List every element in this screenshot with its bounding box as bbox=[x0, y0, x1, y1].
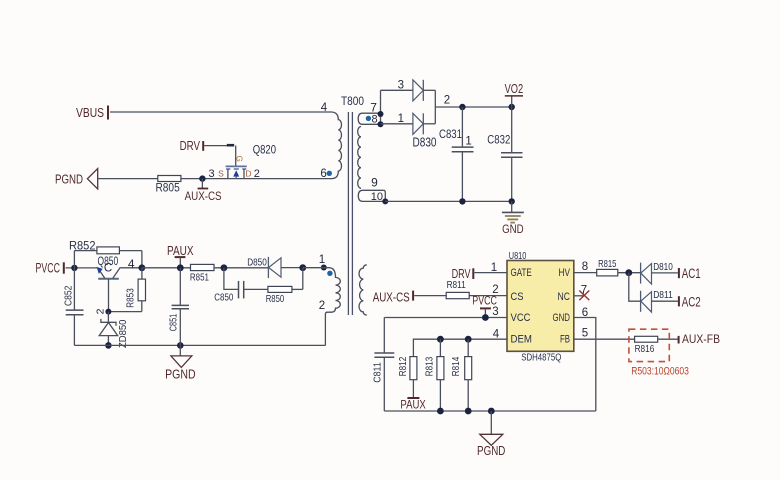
diode D830 top half bbox=[413, 80, 435, 101]
pin 2 label bbox=[319, 300, 325, 312]
svg-text:AC1: AC1 bbox=[682, 266, 701, 281]
resistor R853 bbox=[108, 268, 145, 312]
wire PGND rail bottom bbox=[384, 410, 596, 412]
svg-text:8: 8 bbox=[582, 261, 588, 273]
op-amp U810 body bbox=[507, 251, 574, 364]
node AUX-CS 2 bbox=[373, 289, 413, 304]
svg-text:AC2: AC2 bbox=[682, 295, 701, 310]
svg-text:4: 4 bbox=[493, 328, 500, 340]
label D830 bbox=[413, 134, 437, 149]
junction AUX-CS node bbox=[199, 175, 205, 181]
phase dot pin 1 bbox=[327, 271, 332, 276]
wire VCC bbox=[384, 317, 507, 319]
node DRV bbox=[180, 139, 204, 153]
junction pin 10 bbox=[382, 198, 388, 204]
wire D850 to T800 pin 1 bbox=[303, 267, 330, 269]
wire AUX-CS to R811 bbox=[414, 295, 446, 297]
junction PVCC bbox=[71, 265, 77, 271]
svg-text:R853: R853 bbox=[125, 288, 137, 308]
pin 1 label D830 bbox=[398, 113, 404, 125]
aux sense winding T800 bbox=[359, 265, 367, 315]
junction GND bbox=[509, 198, 515, 204]
node AUX-FB bbox=[679, 332, 720, 346]
wire PGND rail left bbox=[74, 344, 325, 346]
node PVCC bbox=[36, 260, 64, 275]
junction pin 1 bbox=[321, 265, 327, 271]
ground PGND left bbox=[165, 345, 196, 381]
junction zener top bbox=[105, 309, 111, 315]
svg-text:8: 8 bbox=[372, 114, 378, 126]
svg-text:AUX-CS: AUX-CS bbox=[373, 289, 410, 304]
svg-text:4: 4 bbox=[128, 257, 135, 271]
pin 1 label U810 bbox=[491, 262, 497, 274]
svg-text:R816: R816 bbox=[635, 343, 655, 355]
wire PGND to Q820 source bbox=[98, 178, 332, 180]
pin 6 label U810 bbox=[582, 307, 588, 319]
svg-text:PGND: PGND bbox=[55, 171, 83, 186]
node PAUX 2 bbox=[400, 380, 425, 412]
junction R813 bottom bbox=[437, 408, 444, 415]
capacitor C831 bbox=[439, 107, 474, 201]
svg-text:Q820: Q820 bbox=[253, 142, 277, 156]
svg-text:3: 3 bbox=[398, 79, 404, 91]
pin 2 of Q820 bbox=[245, 168, 260, 180]
junction pin 7 bbox=[378, 111, 384, 117]
pin 8 label bbox=[372, 114, 378, 126]
svg-text:C850: C850 bbox=[214, 291, 233, 303]
node AC2 bbox=[679, 295, 701, 310]
svg-text:CS: CS bbox=[511, 291, 524, 303]
svg-text:R812: R812 bbox=[397, 357, 409, 377]
svg-text:6: 6 bbox=[582, 307, 588, 319]
pin 4 label bbox=[321, 102, 328, 114]
wire DEM bbox=[413, 339, 507, 356]
pin 4 label Q850 bbox=[128, 257, 135, 271]
svg-text:VCC: VCC bbox=[511, 312, 531, 324]
junction D850 anode bbox=[299, 264, 306, 271]
svg-text:R811: R811 bbox=[447, 279, 466, 291]
resistor R851 bbox=[190, 264, 214, 283]
svg-text:5: 5 bbox=[582, 328, 588, 340]
svg-text:1: 1 bbox=[465, 135, 471, 147]
wire HV to R815 bbox=[574, 272, 597, 274]
pin 4 label U810 bbox=[493, 328, 500, 340]
svg-text:9: 9 bbox=[371, 175, 378, 189]
junction zener bottom bbox=[105, 342, 112, 349]
pin 3 of Q820 bbox=[209, 168, 225, 180]
svg-text:VO2: VO2 bbox=[505, 81, 524, 96]
wire R815 to diodes bbox=[618, 272, 641, 274]
diode D830 bottom half bbox=[413, 113, 435, 134]
pin 3 label D830 bbox=[398, 79, 404, 91]
svg-text:SDH4875Q: SDH4875Q bbox=[521, 352, 561, 364]
pin 2 label ZD850 bbox=[95, 308, 107, 314]
svg-text:4: 4 bbox=[321, 102, 328, 114]
svg-text:G: G bbox=[235, 156, 244, 162]
svg-text:C832: C832 bbox=[487, 135, 510, 147]
svg-text:1: 1 bbox=[319, 254, 325, 266]
svg-text:DRV: DRV bbox=[452, 266, 471, 281]
junction PVCC VCC bbox=[482, 314, 489, 321]
secondary winding end loop pins 7-8 bbox=[358, 90, 380, 124]
svg-text:C: C bbox=[104, 263, 112, 275]
diode D810 bbox=[641, 262, 678, 284]
junction R814 bottom bbox=[465, 408, 472, 415]
wire R851 to D850 bbox=[214, 267, 268, 269]
pin 8 label U810 bbox=[582, 261, 588, 273]
junction DEM R813 bbox=[437, 336, 444, 343]
svg-text:T800: T800 bbox=[341, 96, 364, 108]
pin 7 label bbox=[370, 100, 377, 114]
wire secondary ground rail bbox=[385, 200, 511, 202]
node PVCC 2 bbox=[472, 294, 497, 318]
phase dot pin 6 bbox=[327, 171, 332, 176]
wire PVCC node bbox=[66, 267, 98, 269]
node PAUX bbox=[167, 244, 194, 268]
junction C851 bottom bbox=[177, 342, 184, 349]
pin 5 label U810 bbox=[582, 328, 588, 340]
transistor Q820 bbox=[226, 142, 277, 178]
wire DRV to Q820 gate bbox=[204, 145, 236, 165]
svg-text:C852: C852 bbox=[62, 285, 74, 306]
svg-text:2: 2 bbox=[319, 300, 325, 312]
svg-text:D830: D830 bbox=[413, 134, 437, 149]
svg-text:NC: NC bbox=[558, 291, 571, 303]
capacitor C832 bbox=[487, 107, 522, 201]
wire T800 pin8 to D830 pin 1 bbox=[381, 123, 413, 125]
svg-text:R852: R852 bbox=[69, 240, 96, 252]
zener diode ZD850 bbox=[99, 312, 129, 348]
svg-text:R503:10Ω0603: R503:10Ω0603 bbox=[631, 366, 689, 378]
svg-text:R814: R814 bbox=[450, 357, 462, 377]
capacitor C811 bbox=[371, 318, 394, 412]
transformer T800 label bbox=[341, 96, 364, 108]
svg-text:C851: C851 bbox=[168, 314, 180, 332]
ground GND bbox=[502, 201, 524, 236]
junction PGND stub bbox=[488, 408, 495, 415]
wire VBUS to T800 pin 4 bbox=[110, 111, 332, 113]
wire R816 to AUX-FB bbox=[658, 338, 678, 340]
svg-text:1: 1 bbox=[398, 113, 404, 125]
pin 10 label bbox=[371, 191, 383, 203]
svg-text:2: 2 bbox=[444, 95, 450, 107]
svg-text:7: 7 bbox=[370, 100, 377, 114]
svg-text:U810: U810 bbox=[509, 251, 527, 262]
svg-text:AUX-CS: AUX-CS bbox=[185, 189, 222, 203]
svg-text:HV: HV bbox=[559, 267, 571, 279]
svg-text:GND: GND bbox=[553, 312, 571, 324]
capacitor C851 bbox=[168, 268, 189, 346]
svg-text:D811: D811 bbox=[653, 290, 673, 301]
svg-text:S: S bbox=[218, 169, 224, 179]
svg-text:D: D bbox=[245, 169, 251, 179]
wire FB to R816 bbox=[574, 338, 635, 340]
svg-text:C811: C811 bbox=[371, 362, 383, 383]
svg-text:C831: C831 bbox=[439, 129, 462, 141]
junction Q850 collector node bbox=[139, 264, 146, 271]
wire T800 pin7 to D830 pin 3 bbox=[381, 89, 413, 91]
junction PAUX bbox=[177, 264, 184, 271]
svg-text:R813: R813 bbox=[423, 357, 435, 377]
capacitor C850 bbox=[214, 268, 268, 304]
svg-text:7: 7 bbox=[581, 285, 587, 297]
secondary winding T800 bbox=[358, 127, 361, 189]
svg-text:1: 1 bbox=[491, 262, 497, 274]
wire D830 pin 2 to VO2 bbox=[435, 90, 511, 124]
junction DEM R814 bbox=[465, 336, 472, 343]
junction pin 8 bbox=[378, 121, 384, 127]
svg-text:PAUX: PAUX bbox=[400, 398, 425, 412]
svg-text:PVCC: PVCC bbox=[36, 260, 61, 275]
resistor R816 bbox=[635, 336, 658, 355]
wire DRV to GATE bbox=[474, 272, 507, 274]
svg-text:D850: D850 bbox=[247, 257, 267, 268]
svg-text:R851: R851 bbox=[190, 272, 209, 284]
pin 9 label bbox=[371, 175, 378, 189]
svg-text:VBUS: VBUS bbox=[76, 105, 104, 120]
pin 7 NC no-connect bbox=[574, 285, 590, 301]
pin 2 label U810 bbox=[492, 284, 498, 296]
junction C831 bottom bbox=[459, 198, 465, 204]
pin 3 label U810 bbox=[492, 306, 498, 318]
svg-text:6: 6 bbox=[320, 168, 326, 180]
transistor Q850 bbox=[97, 256, 142, 312]
svg-text:PGND: PGND bbox=[165, 366, 196, 381]
resistor R815 bbox=[597, 258, 618, 276]
node AUX-CS stub bbox=[185, 179, 222, 203]
node VO2 bbox=[505, 81, 524, 107]
resistor R850 bbox=[266, 268, 303, 305]
svg-text:DRV: DRV bbox=[180, 139, 201, 153]
svg-text:D810: D810 bbox=[653, 262, 673, 273]
svg-text:R815: R815 bbox=[598, 258, 616, 270]
svg-text:ZD850: ZD850 bbox=[117, 319, 129, 348]
diode D811 bbox=[641, 290, 678, 312]
highlight box R503 bbox=[629, 329, 669, 361]
svg-text:2: 2 bbox=[95, 308, 107, 314]
resistor R811 bbox=[446, 279, 469, 298]
secondary winding end loop pins 9-10 bbox=[358, 190, 385, 201]
resistor R852 bbox=[69, 240, 119, 253]
value label R503:10R0603 bbox=[631, 366, 689, 378]
resistor R814 bbox=[450, 339, 472, 411]
node PGND left bbox=[55, 169, 98, 189]
svg-text:AUX-FB: AUX-FB bbox=[682, 332, 720, 346]
svg-text:GND: GND bbox=[502, 224, 524, 236]
node AC1 bbox=[679, 266, 701, 281]
wire GND pin 6 bbox=[574, 318, 596, 412]
phase dot pin 8 bbox=[366, 116, 371, 121]
wire R811 to CS bbox=[469, 295, 507, 297]
node VBUS bbox=[76, 105, 108, 120]
resistor R812 bbox=[397, 357, 417, 380]
capacitor C852 bbox=[62, 268, 83, 346]
transformer core bbox=[348, 112, 352, 315]
svg-text:10: 10 bbox=[371, 191, 383, 203]
diode D850 bbox=[247, 257, 303, 278]
svg-text:PGND: PGND bbox=[477, 443, 505, 458]
wire to D811 bbox=[629, 273, 641, 302]
wire node4 to PAUX bbox=[142, 267, 191, 269]
svg-text:3: 3 bbox=[492, 306, 498, 318]
node DRV 2 bbox=[452, 266, 474, 281]
pin 2 label D830 bbox=[444, 95, 450, 107]
aux winding T800 pins 1-2 bbox=[325, 268, 340, 346]
pin 1 label bbox=[319, 254, 325, 266]
svg-text:GATE: GATE bbox=[511, 267, 532, 279]
pin 6 label bbox=[320, 168, 326, 180]
junction C850 top bbox=[221, 264, 228, 271]
ground PGND bottom bbox=[477, 411, 505, 458]
primary winding T800 pins 4-6 bbox=[332, 112, 342, 179]
svg-text:R850: R850 bbox=[266, 293, 285, 305]
svg-text:R805: R805 bbox=[156, 182, 180, 194]
svg-text:PAUX: PAUX bbox=[167, 244, 194, 258]
resistor R805 bbox=[156, 176, 181, 195]
wire R852 loop bbox=[74, 251, 141, 268]
junction D810 D811 bbox=[625, 269, 632, 276]
junction C831 top bbox=[459, 104, 465, 110]
svg-text:DEM: DEM bbox=[511, 334, 533, 346]
resistor R813 bbox=[423, 339, 443, 411]
svg-text:FB: FB bbox=[560, 334, 570, 346]
junction VO2 bbox=[509, 104, 515, 110]
